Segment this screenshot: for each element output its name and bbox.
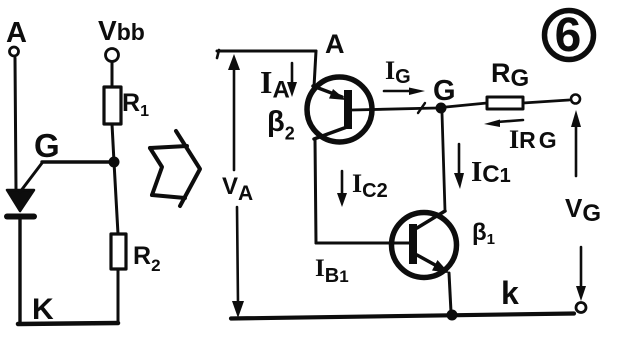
wire gate diagonal: [20, 163, 42, 192]
current IC2 arrow: [341, 171, 344, 194]
wire vertical from A corner: [314, 51, 316, 87]
resistor R2: [111, 234, 126, 269]
wire: [117, 269, 120, 322]
junction dot k: [447, 310, 458, 321]
transistor Q2 PNP: [307, 77, 372, 142]
current IG arrow: [384, 90, 413, 93]
voltage VG arrow up: [575, 124, 578, 176]
resistor R1: [104, 87, 121, 124]
resistor RG: [487, 97, 523, 109]
terminal k right: [576, 303, 586, 313]
svg-text:IRG: IRG: [509, 125, 560, 154]
wire Q1 emitter down: [449, 273, 451, 312]
terminal G right: [571, 95, 580, 104]
wire base Q1 horizontal: [316, 242, 409, 245]
current IC1 arrow: [458, 144, 461, 175]
wire top right: [217, 50, 316, 53]
voltage VA arrow lower: [237, 207, 238, 303]
svg-text:k: k: [501, 275, 519, 311]
wire anode: [15, 58, 16, 190]
wire vertical left down from Q2 collector: [315, 139, 316, 243]
svg-text:K: K: [32, 293, 54, 326]
svg-text:6: 6: [555, 9, 582, 62]
terminal Vbb: [106, 49, 119, 62]
wire gate horizontal: [42, 160, 114, 163]
wire: [112, 124, 118, 234]
voltage VG arrow down: [580, 247, 583, 288]
big arrow symbol: [150, 131, 200, 206]
wire node G to RG: [446, 103, 487, 107]
wire cathode: [18, 218, 21, 322]
svg-text:G: G: [34, 127, 60, 164]
svg-text:G: G: [433, 75, 456, 107]
svg-text:A: A: [325, 29, 345, 59]
wire RG to terminal: [523, 100, 569, 103]
current IRG arrow: [497, 120, 523, 122]
node G junction dot: [436, 103, 447, 114]
wire node G down to Q1 collector: [442, 113, 445, 211]
transistor Q1 NPN: [392, 213, 457, 278]
terminal A: [10, 47, 19, 56]
junction dot G: [109, 157, 120, 168]
wire base Q2 to node G: [352, 108, 437, 110]
wire tick left end: [217, 50, 219, 58]
thyristor SCR: [7, 190, 34, 217]
svg-text:A: A: [6, 17, 27, 49]
svg-text:Vbb: Vbb: [98, 15, 145, 46]
figure number 6 circle: [545, 11, 594, 60]
voltage VA arrow upper: [233, 66, 236, 170]
current IA arrow: [291, 63, 294, 84]
wire tick: [418, 103, 425, 113]
wire bottom left: [18, 323, 118, 324]
bottom rail: [231, 314, 574, 319]
wire: [111, 62, 114, 87]
